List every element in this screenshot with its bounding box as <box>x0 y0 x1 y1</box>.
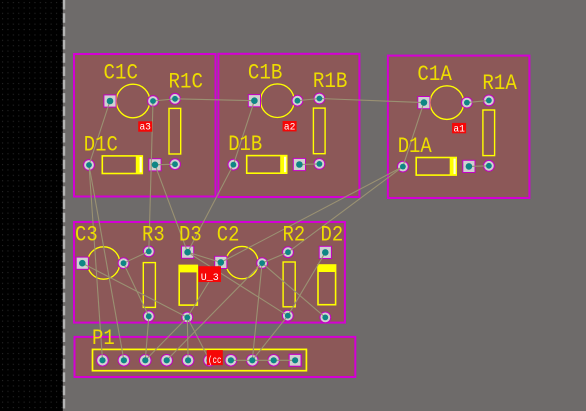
pad hole at 123.9,360.3 <box>121 357 127 363</box>
diode D1A body <box>416 158 456 176</box>
ref label a3 <box>138 121 152 133</box>
wire ratsnest D1C.1-P1.2 <box>89 165 124 360</box>
pad D1B.2 (square) <box>293 158 305 170</box>
pad P1.4 (round) <box>161 355 173 367</box>
pad P1.6 (round) <box>204 355 216 367</box>
pad C3.1 (square) <box>76 257 88 269</box>
label C1C <box>104 61 139 86</box>
wire ratsnest C2.2-R2.1 <box>262 252 288 263</box>
pad R2.1 (round) <box>283 247 294 258</box>
wire ratsnest D3.2-P1.5 <box>186 317 189 360</box>
diode D1B body <box>247 156 287 174</box>
svg-text:C1B: C1B <box>248 60 283 85</box>
wire ratsnest D1A.2-R1A.2 <box>469 165 489 168</box>
pad P1.1 (round) <box>97 355 109 367</box>
wire ratsnest D3.1-R2.2 <box>188 252 288 316</box>
pad P1.8 (round) <box>247 355 259 367</box>
module C1B-group (C1B,R1B,D1B) footprint area <box>218 54 359 197</box>
pad D1C.2 (square) <box>149 159 161 171</box>
wire ratsnest P1.8-P1.9 <box>252 359 273 361</box>
wire ratsnest C3.2-R3.1 <box>124 251 149 263</box>
wire ratsnest C2.2-D2.2 <box>262 263 325 317</box>
label C1B <box>248 60 283 85</box>
page boundary dashed line <box>63 0 65 411</box>
pad hole at 175,164.2 <box>172 161 178 167</box>
pad hole at 402.9,166.6 <box>400 164 406 170</box>
wire ratsnest C1A.2-R1A.1 <box>467 100 489 102</box>
pad hole at 89,165 <box>86 162 92 168</box>
wire ratsnest C1B.1-D1B.1 <box>233 101 254 165</box>
pad C1B.2 (round) <box>292 95 303 106</box>
wire ratsnest C1C.2-R1C.1 <box>153 99 175 101</box>
pad hole at 153,101 <box>150 98 156 104</box>
pad R3.1 (round) <box>143 246 154 257</box>
pad hole at 325.3,252.4 <box>322 249 329 256</box>
pad hole at 233.4,164.7 <box>231 162 237 168</box>
label D2 <box>321 222 344 247</box>
pad hole at 188.1,360.3 <box>185 357 191 363</box>
label C3 <box>75 222 98 247</box>
wire ratsnest C2.1-D3.2 <box>187 262 221 317</box>
pad hole at 488.9,165.8 <box>486 163 492 169</box>
pad hole at 254.4,100.7 <box>251 97 258 104</box>
pad R1A.1 (round) <box>484 95 495 106</box>
module C1C-group (C1C,R1C,D1C) footprint area <box>74 54 216 197</box>
pad D3.1 (square) <box>182 246 194 258</box>
pad hole at 148.8,251.4 <box>146 249 152 255</box>
wire ratsnest D2.1-R2.2 <box>288 252 326 315</box>
wire ratsnest C2.2-P1.8 <box>252 263 262 360</box>
svg-text:(cc: (cc <box>208 355 222 367</box>
pad R2.2 (round) <box>282 310 293 321</box>
pad hole at 209.5,360.3 <box>206 357 212 363</box>
pad C2.2 (round) <box>257 258 268 269</box>
pad hole at 166.7,360.3 <box>164 357 170 363</box>
ref label a2 <box>283 121 297 133</box>
svg-text:C1A: C1A <box>417 62 452 87</box>
pad C3.2 (round) <box>118 258 129 269</box>
wire ratsnest D3.2-P1.6 <box>187 317 209 360</box>
wire ratsnest D1A.1-R2.1 <box>288 167 403 253</box>
label D3 <box>179 222 202 247</box>
pad hole at 187.6,252.2 <box>184 249 191 256</box>
pad D2.1 (square) <box>319 246 331 258</box>
label C1A <box>417 62 452 87</box>
module U3-group (C3,R3,D3,C2,R2,D2) footprint area <box>74 222 345 323</box>
pad P1.5 (round) <box>182 355 194 367</box>
wire ratsnest D1B.2-R1B.2 <box>299 163 319 166</box>
svg-text:a1: a1 <box>453 123 465 135</box>
wire ratsnest R2.2-P1.8 <box>252 316 287 361</box>
svg-text:R1A: R1A <box>482 71 517 96</box>
pad C1B.1 (square) <box>248 95 260 107</box>
wire ratsnest D1C.2-D3.1 <box>155 165 188 252</box>
pad R1B.2 (round) <box>314 159 325 170</box>
svg-text:a2: a2 <box>284 121 296 133</box>
wire ratsnest D3.2-P1.3 <box>145 317 187 360</box>
pad hole at 175,98.8 <box>172 96 178 102</box>
svg-text:U_3: U_3 <box>201 272 219 284</box>
wire ratsnest D3.1-C2.1 <box>188 252 221 262</box>
svg-text:C2: C2 <box>217 222 240 247</box>
svg-text:C1C: C1C <box>104 61 139 86</box>
pad hole at 468.9,166.4 <box>466 163 473 170</box>
pad hole at 262.1,263.1 <box>259 260 265 266</box>
svg-text:R1C: R1C <box>169 69 204 94</box>
wire ratsnest R3.2-P1.3 <box>145 316 149 360</box>
svg-text:R1B: R1B <box>313 69 348 94</box>
wire ratsnest R1B.1-C1A.1 <box>319 99 424 103</box>
resistor R1C body <box>169 108 181 154</box>
pad hole at 319.4,98.5 <box>317 96 323 102</box>
pad R3.2 (round) <box>143 311 154 322</box>
pad hole at 252.3,360.3 <box>249 357 255 363</box>
ref label a1 <box>452 123 466 135</box>
wire ratsnest D1C.1-P1.1 <box>89 165 103 360</box>
pad hole at 155,164.8 <box>152 162 159 169</box>
pad hole at 145.3,360.3 <box>142 357 148 363</box>
pad hole at 110,101 <box>107 98 114 105</box>
resistor R2 body <box>283 262 295 307</box>
pad P1.9 (round) <box>268 355 280 367</box>
pad hole at 297.4,100.7 <box>295 98 301 104</box>
wire ratsnest D1B.1-D3.1 <box>188 165 234 253</box>
svg-text:D2: D2 <box>321 222 344 247</box>
module C1A-group (C1A,R1A,D1A) footprint area <box>388 56 530 198</box>
wire ratsnest C1C.2-R3.1 <box>149 101 153 251</box>
pad hole at 466.9,102.6 <box>464 100 470 106</box>
svg-text:R3: R3 <box>142 222 165 247</box>
wire ratsnest C3.2-R3.2 <box>124 263 149 316</box>
label P1 <box>92 326 115 351</box>
wire ratsnest D1C.2-R1C.2 <box>155 163 175 166</box>
pad P1.7 (round) <box>225 355 237 367</box>
pad hole at 295.1,360.3 <box>292 357 298 363</box>
pad hole at 423.9,102.6 <box>421 99 428 106</box>
pad C1A.2 (round) <box>462 97 473 108</box>
label D1B <box>228 132 262 157</box>
label R1B <box>313 69 348 94</box>
label D1C <box>84 132 118 157</box>
connector P1 footprint area <box>75 337 356 377</box>
svg-text:D3: D3 <box>179 222 202 247</box>
capacitor C2 outline <box>226 246 258 278</box>
pad D1A.1 (round) <box>398 161 409 172</box>
wire ratsnest C3.1-D3.2 <box>82 263 187 317</box>
capacitor C3 outline <box>87 247 119 279</box>
pad D2.2 (round) <box>320 312 331 323</box>
svg-text:R2: R2 <box>283 222 306 247</box>
pad hole at 325.3,317.4 <box>322 315 328 321</box>
label R1A <box>482 71 517 96</box>
pad D1B.1 (round) <box>228 159 239 170</box>
pad D1C.1 (round) <box>84 160 95 171</box>
pad hole at 288,252.2 <box>285 249 291 255</box>
pad hole at 148.8,316.3 <box>146 313 152 319</box>
label C2 <box>217 222 240 247</box>
wire ratsnest P1.9-P1.10 <box>274 359 295 361</box>
pad R1A.2 (round) <box>484 160 495 171</box>
wire ratsnest C1A.1-D1A.1 <box>403 103 424 167</box>
pad hole at 230.9,360.3 <box>228 357 234 363</box>
ref label U_3 <box>199 266 222 284</box>
pad P1.3 (round) <box>140 355 152 367</box>
pad C1A.1 (square) <box>418 97 430 109</box>
pad hole at 187.3,317.4 <box>184 315 190 321</box>
resistor R1B body <box>313 108 325 154</box>
wire ratsnest C2.2-P1.4 <box>167 263 262 360</box>
svg-text:D1A: D1A <box>398 134 433 159</box>
wire ratsnest C1C.1-D1C.1 <box>89 101 110 165</box>
wire ratsnest R1C.1-C1B.1 <box>175 99 254 101</box>
connector P1 body outline <box>93 349 307 370</box>
svg-text:P1: P1 <box>92 326 115 351</box>
svg-text:a3: a3 <box>139 122 151 134</box>
capacitor C1A outline <box>430 86 464 120</box>
pad hole at 220.8,262.4 <box>218 259 225 266</box>
wire ratsnest P1.7-P1.8 <box>231 359 252 361</box>
resistor R1A body <box>483 110 495 156</box>
pad hole at 287.8,315.7 <box>285 313 291 319</box>
pad D3.2 (round) <box>182 312 193 323</box>
wire ratsnest D1A.1-C2.1 <box>221 167 403 263</box>
pad hole at 488.9,100.4 <box>486 98 492 104</box>
label R2 <box>283 222 306 247</box>
pad P1.10 (square) <box>289 354 301 366</box>
pad hole at 299.4,164.5 <box>296 161 303 168</box>
ref label (cc <box>207 350 223 367</box>
pad C2.1 (square) <box>215 256 227 268</box>
svg-text:D1B: D1B <box>228 132 262 157</box>
pad R1B.1 (round) <box>314 93 325 104</box>
capacitor C1C outline <box>116 84 150 118</box>
label D1A <box>398 134 433 159</box>
pad R1C.1 (round) <box>170 93 181 104</box>
pad hole at 82.3,263.2 <box>79 260 86 267</box>
svg-text:C3: C3 <box>75 222 98 247</box>
diode D1C body <box>102 156 142 174</box>
pad R1C.2 (round) <box>170 159 181 170</box>
pad hole at 102.5,360.3 <box>99 357 105 363</box>
pad C1C.2 (round) <box>148 96 159 107</box>
pad D1A.2 (square) <box>463 160 475 172</box>
pad C1C.1 (square) <box>104 95 116 107</box>
diode D3 body <box>179 265 197 305</box>
diode D2 body <box>318 265 336 305</box>
pad hole at 273.7,360.3 <box>271 357 277 363</box>
wire ratsnest C1B.2-R1B.1 <box>297 99 319 101</box>
label R3 <box>142 222 165 247</box>
pad P1.2 (round) <box>118 355 130 367</box>
pad hole at 123.5,263.2 <box>121 260 127 266</box>
capacitor C1B outline <box>261 84 295 118</box>
pad hole at 319.4,163.9 <box>317 161 323 167</box>
resistor R3 body <box>143 263 155 308</box>
svg-text:D1C: D1C <box>84 132 118 157</box>
label R1C <box>169 69 204 94</box>
